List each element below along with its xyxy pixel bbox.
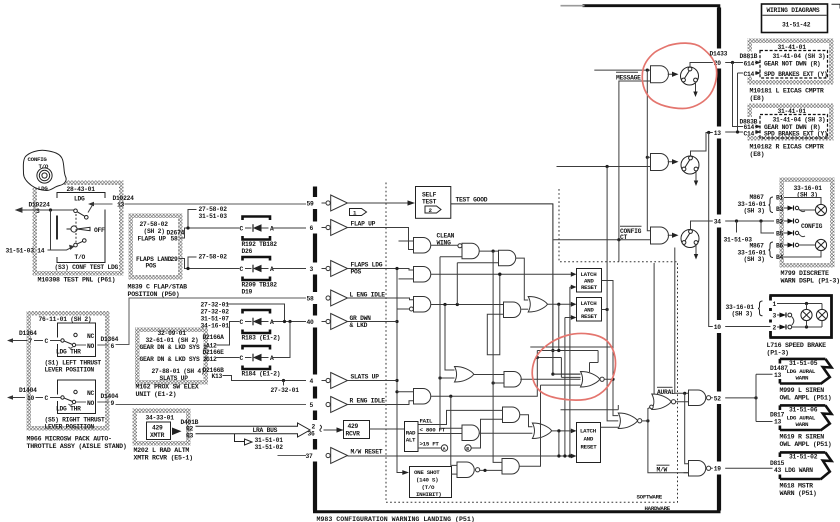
wire 13 M619: [756, 421, 773, 423]
wire B-riser to A8 lower input: [472, 419, 503, 448]
rad-alt receiver box: [405, 422, 419, 452]
riser to OR2 input: [445, 305, 455, 371]
svg-text:D2166A: D2166A: [203, 334, 225, 341]
node A: [441, 445, 447, 451]
svg-text:M10181 L EICAS CMPTR: M10181 L EICAS CMPTR: [750, 88, 824, 95]
svg-text:C: C: [240, 266, 244, 273]
wire 429 RCVR to RAD ALT: [370, 428, 405, 430]
svg-text:(P1-3): (P1-3): [767, 350, 789, 357]
wire A6 lower input loop: [487, 274, 503, 355]
svg-text:31-51-07: 31-51-07: [201, 316, 230, 323]
ground arrow S1: [695, 82, 697, 93]
M202 hatched enclosure: [133, 409, 191, 446]
buffer U1-37: [326, 448, 348, 464]
wire CONFIG CT: [554, 239, 651, 241]
svg-text:28-43-01: 28-43-01: [67, 186, 96, 193]
svg-text:(SH 3): (SH 3): [732, 311, 753, 318]
svg-text:R183 (E1-2): R183 (E1-2): [242, 335, 281, 342]
and-gate A6: [504, 302, 521, 318]
wire N52 to pin52: [711, 397, 713, 399]
svg-text:31-41-04 (SH 3): 31-41-04 (SH 3): [773, 117, 826, 124]
svg-text:(140 S): (140 S): [416, 477, 438, 484]
riser reset to L1: [569, 287, 571, 456]
svg-text:43 LDG WARN: 43 LDG WARN: [774, 467, 813, 474]
svg-text:31-51-05: 31-51-05: [789, 360, 818, 367]
svg-text:G12: G12: [206, 356, 217, 363]
wire stub A4 lower input: [399, 278, 414, 280]
net label CONFIG CT: [620, 225, 642, 227]
wire OR4 out to LATCH3: [552, 430, 572, 432]
wire NOR1 out joins L1 bus: [604, 378, 613, 380]
wire 800FT to A9: [418, 433, 462, 435]
svg-text:C: C: [240, 355, 244, 362]
wire S3 to pin34: [691, 221, 713, 230]
wire A7 upper stub from bus: [493, 382, 504, 384]
bus L2/OR3 vertical: [607, 167, 618, 421]
diode 3: [777, 314, 780, 316]
wire A9 out to OR4: [479, 432, 532, 434]
and-gate A7: [504, 372, 521, 388]
riser A2-input chain: [440, 257, 462, 429]
svg-text:CONFIG: CONFIG: [28, 156, 48, 163]
wire B4 row: [784, 251, 821, 258]
svg-text:FLAPS LDG: FLAPS LDG: [351, 262, 383, 269]
svg-text:M/W RESET: M/W RESET: [351, 449, 383, 456]
svg-text:27-88-01 (SH 4): 27-88-01 (SH 4): [152, 368, 205, 375]
latch L2: [577, 298, 602, 322]
svg-text:D19: D19: [242, 289, 253, 296]
svg-text:LDG THR: LDG THR: [56, 405, 81, 412]
net label MESSAGE: [616, 71, 638, 73]
wire diode R192 to pin 6: [273, 227, 326, 230]
svg-text:M999 L SIREN: M999 L SIREN: [780, 387, 825, 394]
S1 thrust switch: [58, 323, 96, 357]
svg-text:GR DWN: GR DWN: [350, 315, 372, 322]
svg-text:D817: D817: [770, 412, 785, 419]
wire A3 out down to OR1: [516, 258, 529, 300]
nand-gate N52: [689, 390, 706, 406]
svg-text:M/W: M/W: [657, 467, 668, 474]
svg-text:31-51-03: 31-51-03: [724, 237, 753, 244]
lamp CONFIG lower: [815, 239, 826, 250]
wire A2 out to A3: [479, 250, 498, 252]
svg-text:13: 13: [774, 419, 782, 426]
wire 7 C with arrow: [13, 340, 61, 342]
svg-text:GEAR DN & LKD SYS 2: GEAR DN & LKD SYS 2: [140, 356, 208, 363]
svg-text:M983 CONFIGURATION WARNING LA: M983 CONFIGURATION WARNING LANDING (P51): [317, 516, 475, 522]
one-shot arrow: [397, 472, 402, 474]
svg-text:D881B: D881B: [740, 53, 758, 60]
staircase net: [530, 347, 613, 377]
svg-text:A: A: [443, 446, 446, 452]
wire B1 row: [784, 198, 821, 205]
svg-text:D2674: D2674: [167, 230, 185, 237]
svg-text:NO: NO: [87, 343, 95, 350]
svg-text:RESET: RESET: [581, 313, 598, 320]
svg-text:LEVER POSITION: LEVER POSITION: [45, 424, 95, 431]
one-shot box: [410, 467, 452, 498]
wire N19 to pin19: [711, 467, 713, 469]
svg-text:27-58-02: 27-58-02: [199, 206, 228, 213]
connector J2 right (thick dashed): [717, 8, 721, 511]
wire pin19 to M618: [725, 467, 772, 469]
wire pin52 branch: [725, 397, 756, 399]
branch arrow 31-51-01: [235, 434, 253, 445]
svg-text:WARN (P51): WARN (P51): [780, 490, 817, 497]
wire A12 to R183: [217, 322, 240, 346]
and-gate A2: [458, 244, 462, 248]
red annotation circle middle: [532, 334, 615, 401]
svg-text:A: A: [270, 226, 274, 233]
brace B6 B4: [769, 242, 774, 258]
svg-text:(SH 2): (SH 2): [144, 228, 165, 235]
wire 2 row lamps: [792, 326, 822, 328]
svg-text:(SH 3): (SH 3): [744, 256, 765, 263]
wire to pin37: [278, 455, 307, 457]
buffer U1-40: [326, 314, 348, 330]
svg-text:7: 7: [29, 338, 33, 345]
ground arrow S2: [695, 171, 697, 182]
svg-text:GEAR NOT DWN (R): GEAR NOT DWN (R): [764, 60, 820, 67]
svg-text:27-32-01: 27-32-01: [201, 302, 230, 309]
siren box M619: [780, 405, 826, 430]
brace B1 B3: [769, 197, 774, 213]
svg-text:31-51-01: 31-51-01: [255, 437, 284, 444]
squiggle 3-2: [792, 317, 794, 325]
svg-text:59: 59: [307, 201, 315, 208]
svg-text:6: 6: [111, 343, 115, 350]
svg-text:OFF: OFF: [94, 227, 105, 234]
flag 2: [425, 206, 441, 213]
S5 thrust switch: [58, 380, 96, 414]
svg-text:(S5) RIGHT THRUST: (S5) RIGHT THRUST: [45, 417, 105, 424]
svg-text:27-58-02: 27-58-02: [140, 221, 169, 228]
wire node up to AURAL bubble: [648, 407, 651, 421]
svg-text:C: C: [240, 226, 244, 233]
svg-text:T/O: T/O: [75, 254, 86, 261]
EICAS enclosure 1: [748, 39, 834, 85]
net label M/W: [657, 464, 670, 466]
svg-text:34-33-01: 34-33-01: [146, 415, 175, 422]
svg-text:WIRING DIAGRAMS: WIRING DIAGRAMS: [767, 7, 820, 14]
svg-text:B1: B1: [776, 195, 784, 202]
SELF TEST box U2: [416, 187, 451, 219]
red annotation circle top: [642, 43, 716, 108]
svg-text:FAIL: FAIL: [420, 418, 434, 425]
svg-text:6: 6: [310, 225, 314, 232]
label D881B: [739, 52, 760, 59]
svg-text:R184 (E1-2): R184 (E1-2): [242, 371, 281, 378]
bus to gate tops: [646, 69, 649, 72]
wire 29 to diode R209: [179, 257, 240, 269]
svg-text:LDG: LDG: [38, 185, 48, 192]
siren box M999: [780, 359, 826, 384]
svg-text:32-09-01: 32-09-01: [158, 330, 187, 337]
svg-text:B5: B5: [776, 231, 784, 238]
svg-text:M799 DISCRETE: M799 DISCRETE: [781, 270, 829, 277]
svg-text:CONFIG: CONFIG: [801, 223, 823, 230]
svg-text:2: 2: [773, 325, 777, 332]
node TEST GOOD taps: [551, 349, 554, 352]
svg-text:614: 614: [744, 60, 755, 67]
ground arrow S3: [695, 244, 697, 255]
M839 hatched enclosure: [129, 214, 183, 280]
svg-text:WARN DSPL (P1-3): WARN DSPL (P1-3): [781, 278, 840, 285]
vertical feed to N52: [675, 248, 689, 394]
wire stub A1 upper input: [399, 240, 414, 242]
bus x396 vertical: [397, 269, 402, 473]
net label AURAL: [657, 386, 673, 388]
svg-text:L716 SPEED BRAKE: L716 SPEED BRAKE: [767, 342, 827, 349]
wire pin34 to M799: [725, 220, 774, 222]
svg-text:>15 FT: >15 FT: [420, 441, 440, 448]
wire R183 to pin 40: [273, 321, 326, 323]
wire OR1 out to LATCH2: [548, 303, 572, 305]
buffer U1-58: [326, 290, 348, 306]
flag 1: [350, 209, 367, 216]
svg-text:WARN: WARN: [796, 421, 810, 428]
svg-text:76-11-01 (SH 2): 76-11-01 (SH 2): [39, 316, 92, 323]
bus from A2 out down: [493, 251, 502, 462]
wire 10 C with arrow: [13, 397, 61, 399]
svg-text:2: 2: [312, 424, 316, 431]
and-gate AR: [414, 389, 431, 405]
brace L716: [758, 301, 763, 316]
wire K13 to pin 4: [223, 376, 327, 381]
siren box M618: [780, 452, 826, 479]
svg-text:M619 R SIREN: M619 R SIREN: [780, 434, 825, 441]
svg-text:WARN: WARN: [796, 375, 810, 382]
wire TEST bus elbow to NOR1: [553, 373, 581, 375]
svg-text:27-32-01: 27-32-01: [271, 387, 300, 394]
svg-text:M839 C FLAP/STAB: M839 C FLAP/STAB: [128, 284, 188, 291]
svg-text:10: 10: [714, 324, 722, 331]
arrow M3 to S3: [668, 234, 672, 236]
svg-text:4: 4: [310, 378, 314, 385]
and-gate M2: [651, 154, 669, 171]
svg-text:SOFTWARE: SOFTWARE: [637, 494, 663, 501]
svg-text:62: 62: [186, 426, 194, 433]
wire A1 out to A2: [431, 244, 458, 246]
wire pin5 to AND-R: [348, 401, 414, 405]
CONFIG knob sketch: [23, 150, 66, 190]
latch L3: [577, 423, 601, 463]
svg-text:THROTTLE ASSY (AISLE STAND): THROTTLE ASSY (AISLE STAND): [27, 443, 127, 450]
svg-text:9: 9: [111, 400, 115, 407]
svg-text:M202 L RAD ALTM: M202 L RAD ALTM: [134, 447, 190, 454]
svg-text:B3: B3: [776, 206, 784, 213]
arrow M1 to S1: [668, 73, 672, 75]
arrow M2 to S2: [668, 161, 672, 163]
wire pin40: [348, 321, 398, 323]
svg-text:13: 13: [117, 202, 125, 209]
svg-text:LDG: LDG: [74, 196, 85, 203]
svg-text:C14: C14: [744, 130, 755, 137]
svg-text:58: 58: [171, 236, 179, 243]
wire 14 to T/O: [48, 247, 74, 251]
svg-text:31-51-02: 31-51-02: [255, 444, 284, 451]
callout line to wire 40: [228, 304, 285, 322]
or-gate OR1: [528, 297, 547, 313]
wire MESSAGE upper: [594, 69, 650, 71]
svg-text:3: 3: [773, 313, 777, 320]
wire OR3 out node: [642, 420, 648, 422]
wire pin3 line to A4 and LATCH1: [348, 269, 414, 271]
svg-text:3: 3: [36, 208, 40, 215]
wire A3 lower input: [457, 262, 498, 264]
wire AR out to staircase: [431, 351, 538, 397]
svg-text:52: 52: [714, 396, 722, 403]
svg-text:SLATS UP: SLATS UP: [351, 374, 380, 381]
wire N19 in2: [684, 472, 689, 474]
svg-text:CLEAN: CLEAN: [437, 233, 455, 240]
wire pin2/36 brace to 429 RCVR: [320, 425, 322, 432]
svg-text:XMTR: XMTR: [150, 432, 165, 439]
svg-text:RESET: RESET: [581, 284, 598, 291]
wire one-shot to N2: [452, 473, 458, 475]
wire pin59 to SELF TEST with arrow: [322, 202, 409, 204]
svg-text:37: 37: [306, 453, 314, 460]
stub 31-51-03: [736, 221, 738, 233]
wire node down to M/W: [648, 421, 689, 473]
diode assembly R183: [240, 310, 281, 342]
svg-text:POS: POS: [146, 263, 157, 270]
svg-text:A: A: [270, 319, 274, 326]
svg-text:NC: NC: [87, 333, 95, 340]
buffer U1-6: [326, 220, 348, 236]
riser reset to L2: [564, 318, 566, 457]
svg-text:OWL AMPL (P51): OWL AMPL (P51): [780, 441, 832, 448]
wire G12 to R184: [216, 357, 240, 359]
and-gate A3: [499, 250, 516, 265]
svg-text:29: 29: [171, 256, 179, 263]
nand-gate N2: [457, 462, 474, 478]
svg-text:POSITION (P50): POSITION (P50): [128, 291, 180, 298]
buffer U1-4: [326, 373, 348, 389]
svg-text:MESSAGE: MESSAGE: [616, 74, 641, 81]
M10398 hatched enclosure: [33, 181, 124, 276]
wire C14 link: [738, 73, 744, 132]
svg-text:(S1) LEFT THRUST: (S1) LEFT THRUST: [45, 360, 102, 367]
or-gate OR2: [455, 367, 474, 383]
riser to A3 input: [456, 263, 458, 305]
svg-text:31-51-42: 31-51-42: [782, 22, 811, 29]
svg-text:M162 PROX SW ELEX: M162 PROX SW ELEX: [136, 384, 199, 391]
svg-text:C14: C14: [744, 71, 755, 78]
S3 contacts: [74, 209, 78, 213]
wire OR2 lower input: [440, 377, 455, 379]
wire to AND-R upper: [397, 391, 414, 393]
wire FLAP UP to gate A1: [348, 228, 414, 250]
WIRING DIAGRAMS title box: [762, 4, 828, 33]
svg-text:LRA BUS: LRA BUS: [253, 427, 278, 434]
svg-text:SPD BRAKES EXT (Y): SPD BRAKES EXT (Y): [764, 130, 828, 137]
wire N2 out to A10: [480, 469, 502, 471]
svg-text:ALT: ALT: [406, 437, 416, 444]
svg-text:K13: K13: [212, 373, 223, 380]
svg-text:TEST GOOD: TEST GOOD: [456, 197, 488, 204]
svg-text:NO: NO: [87, 400, 95, 407]
or-gate OR4: [532, 423, 551, 439]
svg-text:UNIT (E1-2): UNIT (E1-2): [136, 391, 177, 398]
wire pin58 to A5: [348, 298, 414, 300]
node A4 out tap: [498, 273, 501, 276]
svg-text:M867: M867: [750, 194, 765, 201]
M799 hatched enclosure: [780, 178, 835, 268]
buffer U1-5: [326, 397, 348, 413]
wire 15FT to node A: [418, 447, 441, 449]
svg-text:D1487: D1487: [770, 365, 788, 372]
wire L1 out to OR3: [602, 281, 619, 416]
svg-text:31-51-03 14: 31-51-03 14: [6, 248, 45, 255]
wire M/W RESET: [348, 455, 572, 457]
svg-text:13: 13: [774, 372, 782, 379]
svg-text:LDG THR: LDG THR: [56, 348, 81, 355]
nand-gate N19: [689, 460, 706, 476]
svg-text:40: 40: [307, 319, 315, 326]
svg-text:31-41-04 (SH 3): 31-41-04 (SH 3): [773, 53, 826, 60]
lamp L716 left: [806, 304, 808, 328]
svg-text:NC: NC: [87, 390, 95, 397]
svg-text:OWL AMPL (P51): OWL AMPL (P51): [780, 395, 832, 402]
wire SLATS UP: [348, 380, 398, 382]
svg-text:XMTR RCVR (E5-1): XMTR RCVR (E5-1): [134, 455, 193, 462]
wire 6 up to pin58: [76, 298, 306, 345]
wire R184 up to pin40 net: [273, 322, 290, 358]
and-gate A10: [502, 459, 519, 475]
lamp L716 right: [821, 304, 823, 328]
diode 2: [777, 326, 780, 328]
and-gate M1: [651, 66, 669, 83]
svg-text:5: 5: [310, 402, 314, 409]
svg-text:M10398 TEST PNL (P61): M10398 TEST PNL (P61): [38, 277, 116, 284]
node L3 input arrows: [571, 429, 577, 434]
diode assembly R192: [240, 217, 278, 256]
svg-text:13: 13: [714, 130, 722, 137]
wire A2 lower input from riser: [440, 256, 462, 258]
M162 hatched enclosure: [135, 328, 208, 385]
EICAS enclosure 2: [748, 104, 834, 141]
svg-text:58: 58: [307, 296, 315, 303]
riser to NAND2: [451, 396, 457, 465]
svg-text:RESET: RESET: [581, 444, 598, 451]
riser to N19: [685, 393, 689, 464]
wire common down: [50, 210, 52, 250]
svg-text:34: 34: [714, 219, 722, 226]
squiggle links: [799, 209, 816, 245]
svg-text:& LKD: & LKD: [350, 322, 368, 329]
svg-text:(T/O: (T/O: [422, 484, 436, 491]
vertical into AURAL gate: [653, 263, 655, 395]
svg-text:D1404: D1404: [19, 387, 37, 394]
429 XMTR box: [147, 422, 171, 440]
rotary switch S2: [681, 156, 699, 174]
wire aural feed: [561, 405, 619, 410]
svg-text:AND: AND: [584, 436, 594, 443]
svg-text:(S3) CONF TEST LDG: (S3) CONF TEST LDG: [55, 264, 119, 271]
svg-text:HARDWARE: HARDWARE: [645, 505, 671, 512]
svg-text:31-51-06: 31-51-06: [789, 407, 818, 414]
wire pin3 with arrow: [21, 209, 74, 211]
wire A7 out to NOR1: [520, 378, 580, 380]
riser OR1 to staircase: [558, 304, 560, 350]
diode assembly R184: [240, 346, 281, 378]
svg-text:L ENG IDLE: L ENG IDLE: [350, 292, 386, 299]
svg-text:R192 TB182: R192 TB182: [242, 241, 278, 248]
wire TEST GOOD bus: [451, 204, 581, 374]
wire M2 lower input: [557, 166, 651, 168]
svg-text:INHIBIT): INHIBIT): [416, 491, 441, 498]
